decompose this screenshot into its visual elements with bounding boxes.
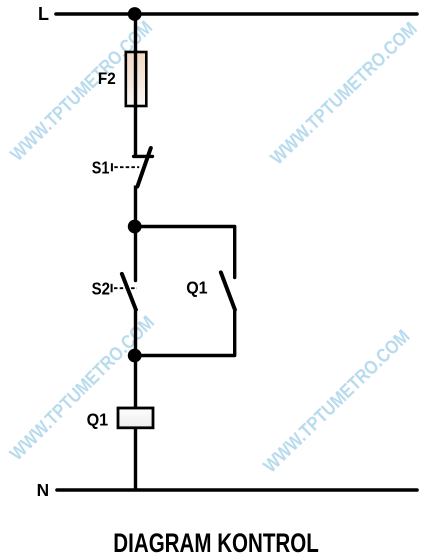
- svg-text:Q1: Q1: [87, 409, 109, 429]
- svg-text:L: L: [38, 4, 49, 24]
- wire left branch top junction to S2: [134, 227, 137, 281]
- S1 actuator tick: [111, 163, 113, 171]
- wire N line: [57, 488, 417, 492]
- svg-text:F2: F2: [98, 70, 116, 88]
- svg-text:S1: S1: [92, 158, 110, 178]
- wire bottom junction to coil: [134, 356, 137, 410]
- wire top rail to right branch down to Q1 contact: [135, 227, 235, 278]
- S2 actuator tick: [111, 284, 113, 293]
- wire S2 to bottom junction: [134, 310, 137, 357]
- wire L line: [56, 12, 417, 16]
- contact Q1 blade: [221, 272, 235, 309]
- fuse F2: [126, 52, 147, 106]
- S2 actuator dashed line: [114, 287, 137, 289]
- wire coil to N line: [134, 427, 137, 490]
- switch S2 blade: [122, 274, 136, 310]
- switch S1 blade: [137, 148, 150, 187]
- wire through fuse F2: [134, 50, 137, 108]
- svg-text:S2: S2: [92, 278, 110, 298]
- svg-text:N: N: [37, 480, 49, 500]
- coil Q1: [118, 408, 153, 428]
- node bottom junction dot: [128, 349, 142, 363]
- svg-text:DIAGRAM KONTROL: DIAGRAM KONTROL: [113, 528, 318, 558]
- S1 actuator dashed line: [114, 166, 139, 168]
- wire from L to fuse and through fuse to S1: [134, 14, 137, 156]
- node top junction dot: [128, 220, 142, 234]
- switch S1 fixed contact foot: [134, 155, 153, 158]
- wire S1 to top junction: [134, 186, 137, 229]
- node L junction dot: [128, 7, 142, 21]
- svg-text:Q1: Q1: [186, 277, 208, 297]
- wire right branch lower and bottom rail: [135, 310, 235, 356]
